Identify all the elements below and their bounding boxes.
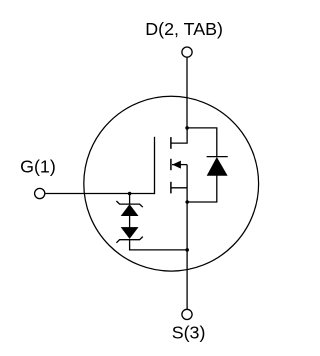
node: source junction dot [185, 248, 189, 252]
node: gate junction dot [128, 192, 132, 196]
wire: body diode anode to source line [187, 176, 217, 203]
wire: source vertical line to source terminal [186, 165, 188, 310]
wire: gate terminal to mosfet gate [45, 193, 154, 195]
wire: gate node to zener ZD1 cathode [129, 194, 131, 205]
node: diode anode junction dot [185, 200, 189, 204]
zener ZD2 cathode bar with bent ends [116, 237, 142, 243]
mosfet M1 body arrow line [172, 164, 187, 166]
wire: drain node to body diode cathode [187, 128, 217, 157]
svg-text:D(2, TAB): D(2, TAB) [145, 19, 223, 39]
zener ZD2 triangle [121, 227, 138, 238]
node: drain junction dot [185, 126, 189, 130]
svg-text:G(1): G(1) [20, 157, 56, 177]
mosfet M1 body arrow head [172, 161, 181, 169]
wire: zener ZD2 to source node [130, 240, 188, 250]
wire: drain terminal to drain node [186, 58, 188, 128]
mosfet M1 body channel dash [170, 159, 172, 170]
source terminal pin circle [182, 309, 192, 319]
body diode D1 triangle [207, 158, 227, 176]
mosfet M1 gate electrode line [154, 137, 156, 194]
zener ZD1 cathode bar with bent ends [116, 201, 142, 207]
drain terminal pin circle [182, 47, 192, 57]
zener ZD1 triangle [121, 205, 138, 216]
wire: source dash to source line [171, 187, 187, 189]
mosfet M1 source channel dash [170, 182, 172, 194]
gate terminal pin circle [35, 188, 45, 198]
svg-text:S(3): S(3) [172, 323, 206, 343]
body diode D1 cathode bar [207, 156, 228, 158]
wire: drain node down to drain dash [171, 128, 187, 143]
wire: between zener anodes [129, 216, 131, 228]
device outline circle [84, 96, 259, 271]
mosfet M1 drain channel dash [170, 137, 172, 149]
